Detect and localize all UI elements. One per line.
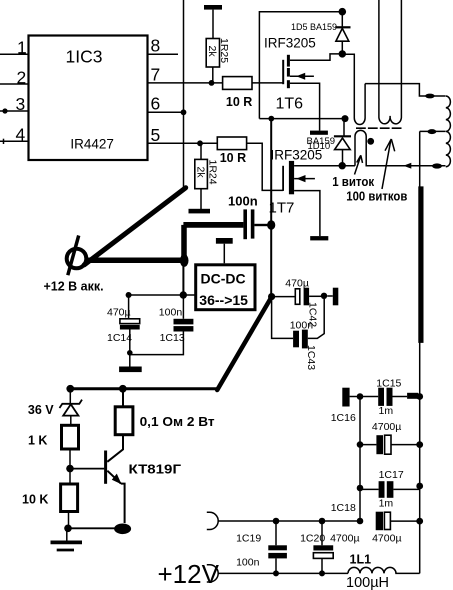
- svg-text:100n: 100n: [290, 319, 314, 331]
- svg-text:36 V: 36 V: [28, 403, 54, 417]
- svg-text:10 R: 10 R: [220, 151, 246, 165]
- svg-text:+12V: +12V: [158, 559, 220, 589]
- svg-text:IRF3205: IRF3205: [264, 36, 316, 51]
- svg-text:1C18: 1C18: [331, 502, 356, 514]
- svg-text:IR4427: IR4427: [70, 137, 114, 152]
- svg-text:1R24: 1R24: [206, 160, 218, 185]
- svg-text:10 K: 10 K: [22, 492, 48, 506]
- svg-text:2k: 2k: [195, 167, 207, 179]
- svg-text:1 K: 1 K: [28, 434, 47, 448]
- svg-text:100n: 100n: [236, 557, 260, 569]
- svg-text:100 витков: 100 витков: [346, 190, 407, 204]
- svg-text:100µH: 100µH: [346, 575, 389, 590]
- svg-text:470µ: 470µ: [107, 306, 131, 318]
- svg-text:0,1 Ом 2 Вт: 0,1 Ом 2 Вт: [140, 414, 215, 429]
- svg-text:2: 2: [17, 67, 27, 87]
- svg-text:1C15: 1C15: [376, 378, 401, 390]
- svg-text:1D5 BA159: 1D5 BA159: [291, 22, 337, 32]
- svg-text:8: 8: [151, 36, 161, 56]
- svg-text:1C17: 1C17: [379, 469, 404, 481]
- svg-text:100n: 100n: [159, 306, 183, 318]
- svg-text:4700µ: 4700µ: [330, 532, 359, 544]
- svg-text:3: 3: [16, 94, 26, 114]
- svg-text:1C19: 1C19: [236, 532, 261, 544]
- svg-text:1R25: 1R25: [218, 38, 230, 63]
- svg-text:+12 В акк.: +12 В акк.: [44, 280, 104, 294]
- svg-text:1L1: 1L1: [350, 553, 372, 567]
- svg-text:100n: 100n: [228, 193, 258, 208]
- svg-text:1: 1: [17, 38, 27, 58]
- svg-text:1IC3: 1IC3: [66, 47, 103, 67]
- svg-text:1T6: 1T6: [276, 96, 304, 113]
- svg-text:7: 7: [151, 64, 161, 84]
- svg-text:1m: 1m: [379, 405, 394, 417]
- svg-text:КТ819Г: КТ819Г: [129, 462, 182, 477]
- svg-text:1T7: 1T7: [269, 200, 295, 217]
- svg-text:470µ: 470µ: [285, 277, 309, 289]
- svg-text:1C14: 1C14: [107, 332, 132, 344]
- svg-text:6: 6: [151, 94, 161, 114]
- svg-text:IRF3205: IRF3205: [271, 148, 323, 163]
- svg-text:1C13: 1C13: [160, 332, 185, 344]
- svg-text:1C20: 1C20: [300, 532, 325, 544]
- svg-text:36-->15: 36-->15: [199, 292, 248, 308]
- svg-text:10 R: 10 R: [226, 95, 252, 109]
- svg-text:4700µ: 4700µ: [372, 421, 401, 433]
- svg-text:4: 4: [16, 125, 26, 145]
- svg-text:1C16: 1C16: [331, 412, 356, 424]
- svg-text:4700µ: 4700µ: [372, 533, 401, 545]
- svg-text:1C43: 1C43: [305, 345, 317, 370]
- svg-text:DC-DC: DC-DC: [201, 270, 246, 286]
- svg-text:5: 5: [151, 125, 161, 145]
- svg-text:2k: 2k: [206, 46, 218, 58]
- svg-text:1 виток: 1 виток: [332, 175, 375, 189]
- svg-text:1m: 1m: [379, 497, 394, 509]
